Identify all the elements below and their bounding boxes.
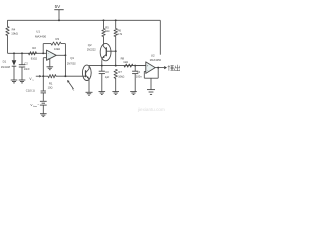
node U2 output junction bbox=[157, 67, 159, 69]
svg-text:R1: R1 bbox=[49, 81, 53, 85]
svg-text:U2: U2 bbox=[151, 53, 155, 57]
wire output down to base line bbox=[64, 55, 66, 76]
ground C3 bbox=[99, 91, 106, 93]
wire to U2 input bbox=[135, 65, 146, 67]
svg-text:MAX400: MAX400 bbox=[35, 35, 46, 39]
node base junction bbox=[64, 75, 66, 77]
wire feedback down bbox=[61, 43, 65, 45]
resistor R2 bbox=[29, 52, 37, 55]
wire U2 ground stub bbox=[150, 78, 152, 90]
svg-text:10kΩ: 10kΩ bbox=[11, 31, 18, 35]
svg-text:~: ~ bbox=[37, 103, 39, 107]
wire output arrow bbox=[159, 67, 164, 69]
resistor R1 bbox=[48, 75, 56, 78]
resistor R4 bbox=[6, 27, 9, 36]
transistor Q1 bbox=[82, 65, 91, 80]
wire feedback up bbox=[42, 44, 44, 54]
svg-text:Q1: Q1 bbox=[70, 56, 74, 60]
wire inverting input line bbox=[8, 52, 47, 54]
ground Vbias bbox=[40, 113, 47, 115]
ground D1 bbox=[11, 79, 18, 81]
wire U1 output bbox=[56, 54, 65, 56]
svg-text:2N2222: 2N2222 bbox=[87, 49, 96, 52]
svg-text:MAX4250: MAX4250 bbox=[150, 58, 162, 62]
transistor Q2 bbox=[100, 43, 111, 60]
node feedback A bbox=[42, 52, 44, 54]
node Q2 base junction bbox=[115, 50, 117, 52]
node noninverting tap bbox=[42, 75, 44, 77]
svg-text:910Ω: 910Ω bbox=[31, 57, 37, 61]
node C4 junction bbox=[134, 65, 136, 67]
svg-text:4.7k: 4.7k bbox=[117, 32, 123, 36]
svg-text:R5: R5 bbox=[105, 25, 109, 29]
ground U2 bbox=[147, 89, 155, 91]
svg-text:10nF: 10nF bbox=[24, 67, 30, 71]
wire Q1 emitter bbox=[88, 79, 90, 93]
svg-text:100n: 100n bbox=[136, 75, 142, 79]
node R7 junction bbox=[115, 65, 117, 67]
svg-text:R8: R8 bbox=[121, 57, 125, 61]
svg-text:R6: R6 bbox=[118, 29, 122, 33]
svg-text:R3: R3 bbox=[56, 37, 60, 41]
svg-text:10kΩ: 10kΩ bbox=[54, 47, 60, 51]
op-amp U2 bbox=[146, 62, 155, 74]
wire left drop bbox=[7, 20, 9, 26]
ground U1 bbox=[47, 66, 54, 68]
wire Q2 emitter bbox=[101, 58, 103, 61]
capacitor C1 branch bbox=[42, 76, 44, 91]
wire R4 to node bbox=[7, 36, 9, 54]
wire U1 noninverting stub bbox=[43, 57, 46, 59]
wire right rail drop bbox=[159, 20, 161, 54]
ground R7 bbox=[112, 91, 119, 93]
svg-text:10Ω: 10Ω bbox=[48, 86, 53, 90]
svg-text:1kΩ: 1kΩ bbox=[105, 29, 110, 33]
svg-text:jiexiantu.com: jiexiantu.com bbox=[137, 107, 165, 112]
svg-text:Q2: Q2 bbox=[88, 43, 92, 47]
wire R5 to Q2 collector bbox=[103, 37, 105, 45]
svg-text:U1: U1 bbox=[36, 30, 40, 34]
wire collector node line bbox=[89, 65, 146, 67]
svg-text:10kΩ: 10kΩ bbox=[118, 75, 124, 79]
capacitor C2 bbox=[21, 53, 23, 64]
wire U2 feedback loop bbox=[157, 68, 159, 79]
svg-text:C1(0.1): C1(0.1) bbox=[26, 88, 35, 92]
svg-text:C4: C4 bbox=[137, 70, 141, 74]
svg-text:1kΩ: 1kΩ bbox=[123, 60, 128, 64]
wire R6 down bbox=[115, 37, 117, 52]
svg-text:R2: R2 bbox=[32, 46, 36, 50]
resistor R7 bbox=[114, 69, 117, 78]
svg-text:R7: R7 bbox=[118, 70, 122, 74]
resistor R3 bbox=[51, 42, 61, 45]
svg-text:C2: C2 bbox=[24, 61, 28, 65]
wire U1 vee stub bbox=[49, 59, 51, 67]
wire R1 to base bbox=[56, 75, 86, 77]
svg-text:2N7002: 2N7002 bbox=[67, 62, 76, 65]
wire Q2 collector bbox=[102, 45, 104, 47]
ground C2 bbox=[19, 79, 26, 81]
svg-text:D1: D1 bbox=[3, 60, 7, 64]
node U1 output junction bbox=[64, 54, 66, 56]
diode D1 bbox=[13, 53, 15, 60]
annotation current I1 bbox=[69, 82, 74, 89]
wire V1 arrow bbox=[36, 75, 40, 77]
capacitor C3 bbox=[101, 66, 103, 72]
svg-text:C3: C3 bbox=[105, 70, 109, 74]
op-amp U1 bbox=[47, 50, 57, 60]
ground Q1 bbox=[86, 91, 93, 93]
resistor R5 bbox=[103, 19, 105, 21]
resistor R8 bbox=[124, 64, 133, 67]
wire V1 line bbox=[42, 75, 48, 77]
source Vbias bbox=[40, 100, 47, 102]
node D1 junction bbox=[13, 52, 15, 54]
wire U2 output bbox=[155, 67, 159, 69]
capacitor C4 bbox=[134, 66, 136, 72]
wire R6 to node line bbox=[115, 51, 117, 65]
node C3 junction bbox=[101, 65, 103, 67]
svg-text:1µF: 1µF bbox=[105, 75, 110, 79]
resistor R6 bbox=[115, 19, 117, 21]
svg-text:5V: 5V bbox=[55, 4, 62, 9]
node C2 junction bbox=[21, 52, 23, 54]
wire Q1 collector bbox=[88, 66, 90, 69]
ground C4 bbox=[130, 91, 137, 93]
label output shuchu bbox=[168, 65, 174, 70]
wire 5V top rail bbox=[8, 19, 161, 21]
svg-text:1N4148: 1N4148 bbox=[1, 65, 11, 69]
